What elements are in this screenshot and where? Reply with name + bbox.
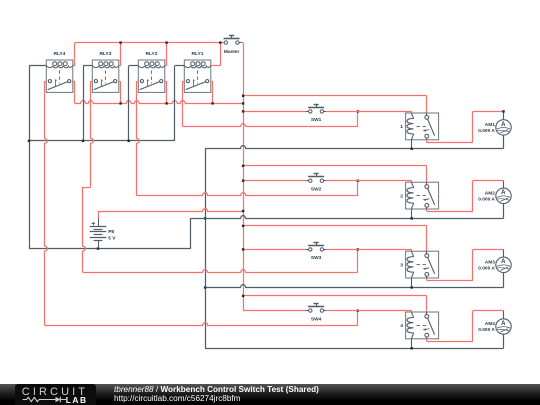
CircuitLab logo [0, 383, 110, 405]
svg-text:RLY3: RLY3 [99, 51, 111, 57]
wire battery positive to master bus [98, 209, 243, 212]
pushbutton switch SW4 [306, 303, 326, 322]
wire SW4 output to relay coil 4 [326, 311, 412, 313]
ammeter AM4 [478, 319, 511, 334]
wire relay 3 output to ammeter AM3 [427, 249, 504, 280]
footer credit line 2 [114, 394, 241, 403]
CircuitLab logo badge [15, 384, 96, 405]
wire SW3 output to relay coil 3 [326, 249, 412, 251]
wire SW1 output to relay coil 1 [326, 111, 412, 113]
svg-text:4: 4 [400, 323, 403, 329]
junction row2 latch join [357, 180, 359, 182]
junction row4 latch join [357, 309, 359, 311]
wire RLY4 latch return row4 [45, 81, 358, 326]
junction top net at RLY3 riser [119, 41, 121, 43]
junction ground tie row3 [204, 286, 206, 288]
svg-text:0.000 A: 0.000 A [478, 128, 495, 134]
wire coil return bus [29, 66, 184, 249]
svg-text:SW4: SW4 [311, 316, 322, 322]
ammeter AM1 [478, 120, 511, 135]
relay 1 [400, 113, 438, 140]
wire RLY2 latch return row2 [137, 81, 358, 196]
wire master bus to SW1 [243, 111, 306, 113]
svg-text:RLY4: RLY4 [53, 51, 65, 57]
wire ground bus row2 [191, 203, 504, 218]
junction contacts bus to master bus [242, 102, 244, 104]
svg-text:AM2: AM2 [485, 190, 495, 196]
wire relay 4 output to ammeter AM4 [427, 311, 504, 342]
junction contacts bus RLY1 [211, 102, 213, 104]
wire ammeter AM3 top stub [503, 249, 505, 257]
svg-text:AM3: AM3 [485, 259, 495, 265]
svg-text:A: A [501, 190, 506, 196]
svg-text:LAB: LAB [66, 395, 88, 405]
wire ammeter AM4 top stub [503, 311, 505, 319]
svg-text:Master: Master [224, 49, 240, 55]
junction relay 1 coil ground [411, 148, 413, 150]
junction master bus SW3 feed [242, 248, 244, 250]
junction relay 2 coil ground [411, 217, 413, 219]
svg-text:AM1: AM1 [485, 122, 495, 128]
wire ground tie vertical [205, 149, 207, 348]
battery P8 5V [90, 211, 117, 249]
wire ground bus row1 [205, 135, 503, 149]
ammeter AM3 [478, 257, 511, 272]
wire SW2 output to relay coil 2 [326, 181, 412, 183]
svg-text:5 V: 5 V [108, 235, 116, 241]
svg-text:SW1: SW1 [311, 117, 322, 123]
relay 3 [400, 251, 438, 278]
pushbutton switch SW2 [306, 174, 326, 193]
junction contacts bus RLY3 [119, 102, 121, 104]
junction relay 3 coil ground [411, 286, 413, 288]
footer credit line 1 [114, 385, 319, 394]
svg-text:SW2: SW2 [311, 187, 322, 193]
svg-text:A: A [501, 259, 506, 265]
wire master bus to SW3 [243, 249, 306, 251]
junction master bus branch row2 [242, 165, 244, 167]
wire relay 2 output to ammeter AM2 [427, 181, 504, 212]
svg-text:0.000 A: 0.000 A [478, 265, 495, 271]
junction coil bus RLY3 drop [82, 140, 84, 142]
wire battery negative [29, 218, 191, 248]
ammeter AM2 [478, 188, 511, 203]
svg-text:0.000 A: 0.000 A [478, 196, 495, 202]
junction coil bus RLY2 drop [128, 140, 130, 142]
wire RLY3 latch return row3 [82, 81, 357, 272]
relay 4 [400, 312, 438, 339]
relay RLY1 [184, 51, 211, 92]
pushbutton switch SW3 [306, 242, 326, 261]
svg-text:RLY1: RLY1 [191, 51, 203, 57]
wire master output vertical bus [242, 43, 244, 311]
junction master bus branch row3 [242, 225, 244, 227]
junction battery positive at master bus [242, 210, 244, 212]
junction top net at RLY1 elbow [219, 41, 221, 43]
junction row1 latch join [357, 110, 359, 112]
svg-text:3: 3 [400, 262, 403, 268]
svg-text:A: A [501, 321, 506, 327]
wire master bus branch to relay 1 contact [243, 96, 427, 114]
svg-text:A: A [501, 122, 506, 128]
footer bar [0, 384, 540, 405]
junction top net at RLY2 riser [165, 41, 167, 43]
junction master bus SW2 feed [242, 180, 244, 182]
wire master bus branch to relay 4 contact [243, 296, 427, 313]
wire master bus to SW4 [243, 310, 306, 312]
wire master bus branch to relay 3 contact [243, 226, 427, 252]
junction row3 latch join [357, 248, 359, 250]
wire master bus branch to relay 2 contact [243, 166, 427, 183]
svg-text:SW3: SW3 [311, 255, 322, 261]
wire master bus to SW2 [243, 180, 306, 182]
svg-text:AM4: AM4 [485, 321, 495, 327]
wire relay 1 output to ammeter AM1 [427, 111, 504, 142]
junction contacts bus RLY2 [165, 102, 167, 104]
pushbutton switch Master [221, 35, 241, 55]
wire ammeter AM1 top stub [503, 111, 505, 119]
relay RLY2 [138, 51, 165, 92]
svg-text:1: 1 [400, 124, 403, 130]
wire relay NO contacts bus [73, 81, 243, 103]
wire top net coil supply [73, 43, 224, 66]
junction ammeter AM1 terminal [502, 110, 504, 112]
junction coil bus RLY4 drop [28, 140, 30, 142]
junction relay 4 coil ground [411, 347, 413, 349]
svg-text:P8: P8 [108, 229, 114, 235]
junction ground tie row2 [204, 217, 206, 219]
wire RLY1 latch return row1 [183, 81, 358, 126]
junction master bus branch row4 [242, 295, 244, 297]
junction master bus SW1 feed [242, 110, 244, 112]
wire ground bus row4 [205, 334, 503, 348]
relay RLY3 [92, 51, 119, 92]
junction battery negative terminal [97, 247, 99, 249]
pushbutton switch SW1 [306, 104, 326, 123]
wire ammeter AM2 top stub [503, 181, 505, 189]
relay 2 [400, 182, 438, 209]
svg-text:2: 2 [400, 193, 403, 199]
svg-text:RLY2: RLY2 [145, 51, 157, 57]
relay RLY4 [46, 51, 73, 92]
wire ground bus row3 [205, 272, 503, 287]
svg-text:0.000 A: 0.000 A [478, 327, 495, 333]
junction master bus branch row1 [242, 95, 244, 97]
